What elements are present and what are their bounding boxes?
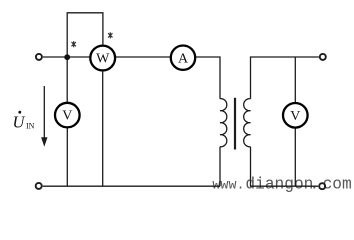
wire bottom left — [43, 185, 220, 187]
wire right V branch lower — [294, 128, 296, 187]
label U_IN — [13, 111, 35, 132]
wire W bottom return — [102, 71, 104, 187]
inductor primary winding — [220, 99, 227, 147]
svg-text:V: V — [290, 109, 300, 124]
inductor secondary winding — [244, 99, 251, 147]
wire left V branch upper — [66, 57, 68, 103]
terminal top-left — [36, 54, 42, 60]
node junction dot — [64, 54, 70, 60]
wire primary bottom down — [219, 147, 221, 187]
terminal top-right — [320, 54, 326, 60]
ammeter A1 — [171, 46, 195, 70]
svg-text:A: A — [178, 51, 189, 66]
wire secondary top to terminal — [251, 57, 319, 99]
wire voltage-coil loop — [67, 13, 103, 57]
svg-text:IN: IN — [26, 122, 35, 131]
terminal bottom-right — [319, 183, 325, 189]
svg-text:V: V — [62, 109, 72, 124]
arrow U_IN direction — [41, 86, 47, 147]
wire left V branch lower — [66, 127, 68, 186]
svg-text:www.diangon.com: www.diangon.com — [212, 176, 351, 194]
wire W to A — [116, 56, 171, 58]
terminal bottom-left — [36, 183, 42, 189]
wire right V branch upper — [294, 57, 296, 103]
wire secondary bottom to terminal — [251, 147, 319, 187]
voltmeter V2 right — [283, 103, 308, 128]
svg-text:W: W — [96, 52, 110, 67]
polarity asterisk near junction — [72, 41, 76, 47]
wattmeter W1 — [90, 46, 115, 71]
transformer core bar — [234, 98, 236, 150]
voltmeter V1 left — [55, 103, 80, 128]
wire top-left to W — [43, 56, 91, 58]
wire A to transformer primary top — [195, 57, 220, 99]
svg-text:U: U — [13, 112, 26, 131]
polarity asterisk near W top — [108, 32, 112, 38]
